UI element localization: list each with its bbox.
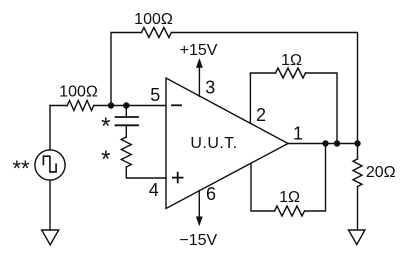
- svg-text:100Ω: 100Ω: [59, 84, 98, 101]
- wire: top feedback left segment: [111, 33, 141, 106]
- ground (load): [349, 230, 365, 245]
- resistor R_t1 1ohm (top): [276, 68, 306, 78]
- svg-text:U.U.T.: U.U.T.: [190, 135, 237, 152]
- node: junction dot at feedback / minus-input: [108, 102, 114, 108]
- label * (resistor): [101, 146, 110, 173]
- wire: source to ground: [49, 180, 51, 230]
- power -15V supply arrow (pin 6): [196, 191, 203, 227]
- wire: output node to 20 ohm: [357, 144, 359, 160]
- op-amp U.U.T. triangle: [166, 78, 288, 209]
- source VS square-wave generator: [35, 150, 65, 180]
- wire: top feedback right segment: [171, 33, 357, 144]
- svg-text:100Ω: 100Ω: [134, 11, 173, 28]
- node: junction dot at RC branch: [123, 102, 129, 108]
- pin number 6: [206, 184, 216, 204]
- resistor R_L 20ohm (load): [353, 159, 362, 187]
- wire: pin 2 vertical to top 1 ohm: [250, 73, 275, 123]
- wire: input row right of R_in to op-amp minus input (pin 5): [94, 105, 166, 107]
- svg-text:+15V: +15V: [180, 42, 218, 59]
- capacitor C* (marked *): [116, 117, 139, 125]
- op-amp plus sign: [173, 173, 183, 183]
- label U.U.T.: [190, 135, 237, 152]
- wire: capacitor to resistor: [125, 125, 127, 137]
- pin number 1: [293, 123, 303, 143]
- wire: 20 ohm to ground: [357, 187, 359, 230]
- wire: input row left of R_in: [50, 105, 67, 107]
- svg-text:1: 1: [293, 123, 303, 143]
- value label 100ohm (feedback): [134, 11, 173, 28]
- value label 1ohm (bottom): [279, 189, 300, 206]
- value label 20ohm: [366, 164, 396, 181]
- label ** (source note): [12, 156, 30, 181]
- resistor R_b1 1ohm (bottom): [275, 206, 305, 216]
- wire: source vertical up to input row: [49, 106, 51, 150]
- wire: top 1 ohm to output node: [306, 73, 338, 144]
- svg-text:1Ω: 1Ω: [281, 52, 302, 69]
- label -15V: [179, 232, 217, 249]
- wire: output row from apex to right node: [288, 143, 358, 145]
- node: junction dot output-1: [322, 140, 328, 146]
- value label 1ohm (top): [281, 52, 302, 69]
- resistor R_in 100ohm (input): [67, 101, 93, 111]
- wire: node to capacitor: [125, 106, 127, 118]
- svg-text:6: 6: [206, 184, 216, 204]
- pin number 3: [205, 78, 215, 98]
- label * (capacitor): [101, 113, 110, 140]
- svg-text:2: 2: [256, 105, 266, 125]
- wire: bottom 1 ohm to output node: [305, 144, 326, 212]
- node: junction dot output-3: [354, 140, 360, 146]
- svg-text:4: 4: [149, 180, 159, 200]
- resistor R_fb 100ohm (top feedback): [141, 28, 171, 38]
- pin number 4: [149, 180, 159, 200]
- resistor R* vertical (marked *): [121, 137, 131, 167]
- svg-text:3: 3: [205, 78, 215, 98]
- wire: resistor bottom to plus input row (pin 4): [126, 167, 166, 178]
- value label 100ohm (input): [59, 84, 98, 101]
- svg-text:*: *: [101, 146, 110, 173]
- power +15V supply arrow (pin 3): [196, 58, 203, 96]
- svg-text:5: 5: [150, 85, 160, 105]
- svg-text:*: *: [101, 113, 110, 140]
- node: junction dot output-2: [334, 140, 340, 146]
- svg-text:**: **: [12, 156, 30, 181]
- wire: bottom sense vertical from slope to bottom 1 ohm: [251, 163, 275, 211]
- svg-text:20Ω: 20Ω: [366, 164, 396, 181]
- svg-text:1Ω: 1Ω: [279, 189, 300, 206]
- label +15V: [180, 42, 218, 59]
- pin number 5: [150, 85, 160, 105]
- op-amp minus sign: [172, 104, 181, 106]
- ground (source): [42, 230, 59, 245]
- pin number 2: [256, 105, 266, 125]
- svg-text:−15V: −15V: [179, 232, 217, 249]
